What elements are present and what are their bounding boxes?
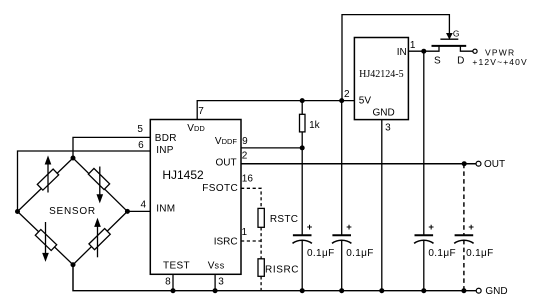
- svg-text:2: 2: [242, 150, 248, 161]
- svg-text:6: 6: [138, 140, 144, 151]
- svg-text:GND: GND: [485, 286, 507, 297]
- svg-text:2: 2: [344, 89, 350, 100]
- svg-text:Vss: Vss: [208, 260, 225, 271]
- svg-text:ISRC: ISRC: [214, 237, 238, 248]
- svg-text:9: 9: [242, 136, 248, 147]
- svg-text:HJ1452: HJ1452: [162, 168, 204, 182]
- svg-text:5: 5: [137, 124, 143, 135]
- svg-text:TEST: TEST: [163, 260, 190, 271]
- svg-text:INP: INP: [156, 145, 174, 156]
- svg-text:VDD: VDD: [187, 123, 205, 134]
- svg-text:+: +: [346, 222, 352, 233]
- svg-text:FSOTC: FSOTC: [202, 183, 238, 194]
- svg-text:INM: INM: [156, 204, 175, 215]
- svg-text:D: D: [457, 56, 464, 67]
- svg-text:7: 7: [198, 106, 204, 117]
- svg-text:OUT: OUT: [484, 159, 505, 170]
- svg-text:0.1μF: 0.1μF: [346, 248, 374, 259]
- svg-text:1k: 1k: [309, 120, 321, 131]
- svg-text:+: +: [307, 222, 313, 233]
- svg-text:+: +: [428, 222, 434, 233]
- svg-text:SENSOR: SENSOR: [49, 206, 96, 217]
- svg-text:+12V~+40V: +12V~+40V: [472, 57, 528, 67]
- svg-text:16: 16: [242, 174, 254, 185]
- svg-text:OUT: OUT: [215, 158, 236, 169]
- svg-text:G: G: [453, 28, 460, 38]
- svg-text:1: 1: [410, 40, 416, 51]
- svg-text:3: 3: [218, 276, 224, 287]
- svg-text:BDR: BDR: [155, 133, 177, 144]
- svg-text:GND: GND: [372, 108, 394, 119]
- svg-text:0.1μF: 0.1μF: [428, 248, 456, 259]
- svg-text:RISRC: RISRC: [265, 264, 299, 275]
- svg-text:VDDF: VDDF: [215, 136, 238, 147]
- svg-text:5V: 5V: [359, 96, 372, 107]
- svg-text:S: S: [434, 56, 441, 67]
- svg-text:HJ42124-5: HJ42124-5: [359, 69, 403, 80]
- svg-text:0.1μF: 0.1μF: [307, 248, 335, 259]
- svg-text:IN: IN: [397, 47, 407, 58]
- svg-text:1: 1: [242, 227, 248, 238]
- svg-text:3: 3: [385, 122, 391, 133]
- svg-text:0.1μF: 0.1μF: [466, 248, 494, 259]
- svg-text:+: +: [468, 222, 474, 233]
- svg-text:8: 8: [165, 276, 171, 287]
- svg-text:4: 4: [141, 199, 147, 210]
- svg-text:RSTC: RSTC: [270, 214, 298, 225]
